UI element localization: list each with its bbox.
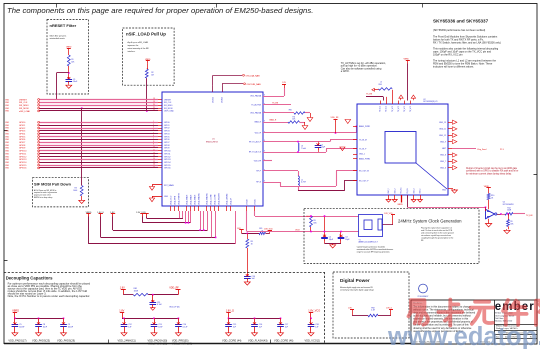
svg-text:VDD_SYNTH: VDD_SYNTH — [179, 193, 181, 205]
svg-text:VDD_PADS: VDD_PADS — [186, 194, 189, 205]
svg-text:TX_VCC: TX_VCC — [392, 105, 394, 112]
svg-text:22: 22 — [153, 110, 155, 112]
svg-text:SKY65336(11)-21: SKY65336(11)-21 — [423, 101, 437, 103]
svg-text:GPIO14: GPIO14 — [19, 162, 27, 164]
svg-text:1.8V_D: 1.8V_D — [226, 309, 235, 312]
svg-text:17: 17 — [153, 167, 155, 169]
svg-text:EM5: EM5 — [6, 148, 9, 150]
svg-text:GPIO4: GPIO4 — [164, 133, 170, 135]
svg-text:GPIO8: GPIO8 — [164, 145, 170, 147]
svg-text:TX_IN_P: TX_IN_P — [359, 149, 367, 151]
svg-text:FB5: FB5 — [259, 228, 262, 230]
svg-text:BIAS_R: BIAS_R — [270, 118, 277, 121]
svg-text:GPIO3: GPIO3 — [164, 131, 170, 133]
svg-text:TX_ACTIVE: TX_ACTIVE — [251, 104, 262, 107]
svg-text:GPIO5: GPIO5 — [164, 136, 170, 138]
svg-text:VDD_RF: VDD_RF — [331, 117, 340, 119]
svg-text:VDD_CORE (44): VDD_CORE (44) — [222, 338, 242, 342]
svg-text:VDD_CORE (46): VDD_CORE (46) — [274, 338, 294, 342]
svg-text:VDD_PADS: VDD_PADS — [194, 194, 197, 205]
svg-text:RX_OUT_M: RX_OUT_M — [359, 171, 369, 173]
svg-text:EM5: EM5 — [6, 108, 9, 110]
svg-text:VDD_PADSA: VDD_PADSA — [250, 112, 262, 115]
svg-text:EM5: EM5 — [6, 159, 9, 161]
svg-text:GPIO1: GPIO1 — [19, 125, 26, 127]
svg-text:GND_11: GND_11 — [439, 129, 446, 131]
svg-text:100R: 100R — [507, 210, 512, 212]
svg-text:EM5: EM5 — [6, 128, 9, 130]
svg-text:VDD_IF: VDD_IF — [255, 133, 262, 135]
svg-text:a GPIO.: a GPIO. — [341, 70, 350, 73]
svg-text:VDD_PADSA(32): VDD_PADSA(32) — [148, 342, 168, 346]
svg-text:18: 18 — [153, 98, 155, 100]
svg-text:RF_TX_ALT_P: RF_TX_ALT_P — [249, 140, 262, 143]
svg-text:GPIO15: GPIO15 — [164, 165, 171, 167]
svg-text:www.edatop.co: www.edatop.co — [387, 323, 540, 349]
svg-text:GPIO13: GPIO13 — [164, 159, 171, 161]
svg-text:100nF: 100nF — [19, 326, 25, 328]
svg-text:GPIO9: GPIO9 — [164, 148, 170, 150]
svg-text:TX_EN: TX_EN — [272, 103, 279, 105]
svg-text:100nF: 100nF — [68, 326, 74, 328]
svg-text:VDD_FLASH: VDD_FLASH — [218, 193, 221, 205]
svg-text:4.7nH: 4.7nH — [301, 182, 306, 184]
svg-text:OSCA: OSCA — [254, 199, 257, 205]
svg-text:GPIO4: GPIO4 — [19, 133, 26, 135]
svg-text:range for accurate RF frequenc: range for accurate RF frequency generati… — [357, 250, 391, 253]
svg-text:SIF_MISO: SIF_MISO — [19, 105, 29, 107]
svg-text:P1.9: P1.9 — [500, 149, 504, 151]
svg-text:EM5: EM5 — [6, 145, 9, 147]
svg-text:EM5: EM5 — [6, 105, 9, 107]
svg-text:GND_4: GND_4 — [413, 188, 415, 193]
svg-text:interface.: interface. — [128, 50, 136, 53]
svg-text:GPIO8: GPIO8 — [19, 145, 26, 147]
svg-text:VDD_PADSA: VDD_PADSA — [250, 95, 262, 98]
svg-text:nRESET Filter: nRESET Filter — [50, 23, 77, 28]
svg-text:VDD_RF: VDD_RF — [254, 161, 262, 163]
svg-text:EM5: EM5 — [6, 131, 9, 133]
svg-text:GND_1: GND_1 — [359, 154, 365, 156]
svg-text:RX_VCC: RX_VCC — [401, 186, 403, 193]
svg-text:VBRD: VBRD — [145, 59, 151, 61]
svg-text:VBRD: VBRD — [404, 59, 410, 61]
svg-text:TX_VCC: TX_VCC — [404, 105, 406, 112]
svg-text:RST_WAKE: RST_WAKE — [164, 184, 175, 187]
svg-text:VBRD: VBRD — [12, 309, 19, 312]
svg-text:TX_VCC: TX_VCC — [410, 105, 412, 112]
svg-text:Note, the IC Pin Number is in: Note, the IC Pin Number is in parens und… — [8, 294, 91, 298]
svg-text:GPIO7: GPIO7 — [164, 142, 170, 144]
svg-text:5th Floor: 5th Floor — [495, 317, 504, 320]
svg-text:ABM8G-24.000MHZ-4Y-T: ABM8G-24.000MHZ-4Y-T — [359, 241, 378, 244]
svg-text:TX_VCC: TX_VCC — [386, 105, 388, 112]
svg-text:EM5: EM5 — [6, 153, 9, 155]
svg-text:GPIO5: GPIO5 — [19, 136, 26, 138]
svg-text:Output of inverter circuit can: Output of inverter circuit can be tie to… — [466, 167, 518, 170]
svg-text:GPIO0: GPIO0 — [164, 122, 170, 124]
svg-text:100pF on the RX_VCC pin: 100pF on the RX_VCC pin — [433, 54, 463, 57]
svg-text:GND_2: GND_2 — [388, 188, 390, 193]
svg-text:VDD_SYNTH(36): VDD_SYNTH(36) — [172, 342, 192, 346]
svg-text:RF_N: RF_N — [256, 182, 261, 184]
svg-text:Chip_Feed: Chip_Feed — [477, 149, 486, 151]
svg-text:VDD_IF (8): VDD_IF (8) — [169, 306, 179, 308]
svg-text:GND_8: GND_8 — [440, 155, 446, 157]
svg-text:nRESET: nRESET — [19, 99, 28, 101]
svg-text:OSCB24: OSCB24 — [213, 97, 215, 103]
svg-text:GND_5: GND_5 — [420, 188, 422, 193]
svg-text:GPIO2: GPIO2 — [19, 128, 26, 130]
svg-text:VDD_PADS(25): VDD_PADS(25) — [32, 338, 50, 342]
svg-text:A pull up on nSIF_LOAD: A pull up on nSIF_LOAD — [128, 41, 149, 44]
svg-text:24MHz System Clock Generation: 24MHz System Clock Generation — [398, 219, 462, 224]
svg-text:GND_6: GND_6 — [440, 167, 446, 169]
svg-text:EM5: EM5 — [6, 142, 9, 144]
svg-text:TX_IN_M: TX_IN_M — [359, 139, 367, 141]
svg-text:VDD_PADSA: VDD_PADSA — [206, 193, 209, 205]
svg-text:OSC24B_NAB: OSC24B_NAB — [247, 83, 262, 86]
svg-text:1.8V_VCD: 1.8V_VCD — [384, 213, 393, 215]
svg-text:SIF_CLK: SIF_CLK — [19, 102, 28, 104]
svg-text:GPIO12: GPIO12 — [19, 156, 27, 158]
svg-text:TX_EN: TX_EN — [366, 94, 373, 96]
svg-text:SIF MOSI Pull Down: SIF MOSI Pull Down — [34, 181, 72, 186]
svg-text:VDD_24MHZ: VDD_24MHZ — [227, 193, 229, 205]
svg-text:GPIO10: GPIO10 — [19, 151, 27, 153]
svg-text:GPIO6: GPIO6 — [19, 139, 26, 141]
svg-text:VDD_CORE: VDD_CORE — [211, 194, 213, 205]
svg-text:nRESET: nRESET — [164, 99, 172, 101]
svg-text:VDD_VCO: VDD_VCO — [171, 195, 173, 205]
svg-text:EM5: EM5 — [6, 122, 9, 124]
svg-text:for minimum current draw durin: for minimum current draw during sleep de… — [466, 172, 512, 175]
svg-text:EM5: EM5 — [6, 99, 9, 101]
svg-text:FB4: FB4 — [379, 84, 382, 86]
svg-text:VDD_VCO(2): VDD_VCO(2) — [305, 338, 321, 342]
svg-text:VDD_PADSA: VDD_PADSA — [198, 193, 201, 205]
svg-text:VDD_FLASH(43): VDD_FLASH(43) — [248, 338, 268, 342]
svg-text:nSIF_LOAD Pull Up: nSIF_LOAD Pull Up — [126, 31, 166, 36]
svg-text:GPIO11: GPIO11 — [164, 153, 170, 155]
svg-text:GPIO11: GPIO11 — [19, 153, 27, 155]
svg-text:coupling through the ground pl: coupling through the ground plane to the — [421, 237, 453, 240]
svg-text:13: 13 — [153, 155, 155, 157]
svg-text:SIF_MISO: SIF_MISO — [164, 105, 173, 107]
svg-text:GND_12: GND_12 — [439, 135, 446, 137]
svg-text:OSCB: OSCB — [295, 229, 300, 231]
svg-text:GND: GND — [442, 190, 447, 192]
svg-text:EM5: EM5 — [6, 156, 9, 158]
svg-text:VDD_CORE: VDD_CORE — [215, 194, 217, 205]
svg-text:RF_TX_ALT_N: RF_TX_ALT_N — [249, 151, 262, 154]
svg-text:16: 16 — [153, 164, 155, 166]
svg-text:nSIF_LOAD: nSIF_LOAD — [19, 110, 31, 113]
svg-text:EM5: EM5 — [6, 102, 9, 104]
svg-text:combined with a GPIO to disabl: combined with a GPIO to disable RX path … — [466, 170, 519, 173]
svg-text:VDD_IF: VDD_IF — [231, 197, 233, 205]
svg-text:1.8V: 1.8V — [119, 309, 124, 312]
svg-text:unintended resets.: unintended resets. — [50, 37, 66, 40]
svg-text:EM5: EM5 — [6, 139, 9, 141]
svg-text:RX_EN: RX_EN — [407, 188, 409, 193]
svg-text:EM5: EM5 — [6, 136, 9, 138]
svg-text:VDD_24MHZ(1): VDD_24MHZ(1) — [118, 338, 136, 342]
svg-text:GPIO16: GPIO16 — [164, 168, 171, 170]
svg-text:GND_7: GND_7 — [440, 161, 446, 163]
svg-text:nSIF_LOAD: nSIF_LOAD — [164, 110, 174, 113]
svg-text:VDD_PADS: VDD_PADS — [190, 194, 193, 205]
svg-text:GPIO9: GPIO9 — [19, 148, 26, 150]
svg-text:GPIO1: GPIO1 — [164, 125, 170, 127]
svg-text:1.8V_VCO: 1.8V_VCO — [308, 309, 320, 312]
svg-text:SIF_MOSI: SIF_MOSI — [164, 108, 173, 110]
svg-text:VDD_PADS(29): VDD_PADS(29) — [57, 338, 75, 342]
svg-text:BIAS_R: BIAS_R — [255, 121, 262, 124]
svg-text:noise immunity of the SIF: noise immunity of the SIF — [128, 47, 150, 50]
svg-text:19: 19 — [153, 101, 155, 103]
svg-text:EM5: EM5 — [6, 125, 9, 127]
svg-text:21: 21 — [153, 107, 155, 109]
svg-text:VDD_PADS(17): VDD_PADS(17) — [8, 338, 26, 342]
svg-text:BAND_PWR2: BAND_PWR2 — [359, 158, 370, 161]
svg-text:VDD_PRE: VDD_PRE — [175, 195, 177, 205]
svg-text:GND_13: GND_13 — [439, 122, 446, 124]
svg-text:EM250-RF-B: EM250-RF-B — [206, 142, 218, 144]
svg-text:SIF_MOSI: SIF_MOSI — [19, 108, 29, 110]
svg-text:inductors will tune to differe: inductors will tune to different values. — [433, 66, 474, 69]
svg-text:NC7SZ04M5X: NC7SZ04M5X — [503, 204, 515, 206]
svg-text:GND_3: GND_3 — [394, 188, 396, 193]
svg-text:EM5: EM5 — [6, 111, 9, 113]
svg-text:20: 20 — [153, 104, 155, 106]
svg-text:GPIO2: GPIO2 — [164, 128, 170, 130]
svg-text:15: 15 — [153, 161, 155, 163]
svg-text:EM5: EM5 — [6, 168, 9, 170]
svg-text:EM5: EM5 — [6, 165, 9, 167]
svg-text:EM5: EM5 — [6, 162, 9, 164]
svg-text:OSC24A_NAB: OSC24A_NAB — [246, 74, 261, 77]
svg-text:10: 10 — [153, 147, 155, 149]
svg-text:EM250 is in deep sleep.: EM250 is in deep sleep. — [34, 197, 53, 199]
svg-text:12: 12 — [153, 152, 155, 154]
svg-text:GPIO15: GPIO15 — [19, 165, 27, 167]
svg-text:GPIO12: GPIO12 — [164, 156, 171, 158]
svg-text:NBR5: NBR5 — [398, 204, 403, 206]
svg-text:Digital Power: Digital Power — [340, 278, 370, 283]
svg-text:SKY65336 and SKY65337: SKY65336 and SKY65337 — [433, 19, 489, 24]
svg-text:BAND_PWR1: BAND_PWR1 — [359, 125, 370, 128]
svg-text:GPIO16: GPIO16 — [19, 168, 27, 170]
svg-text:(SKY65336 performance has not: (SKY65336 performance has not been verif… — [433, 29, 485, 32]
svg-text:GPIO6: GPIO6 — [164, 139, 170, 141]
svg-text:SIF_CLK: SIF_CLK — [164, 102, 172, 104]
svg-text:OSCB: OSCB — [247, 199, 249, 205]
svg-text:GPIO7: GPIO7 — [19, 142, 26, 144]
svg-text:VBRD: VBRD — [66, 47, 72, 49]
svg-text:Decoupling Capacitors: Decoupling Capacitors — [6, 276, 53, 281]
svg-text:GPIO0: GPIO0 — [19, 122, 26, 124]
svg-text:RF_P: RF_P — [256, 171, 261, 173]
svg-text:GND_9: GND_9 — [440, 141, 446, 143]
svg-text:improves the: improves the — [128, 44, 139, 47]
svg-text:The components on this page ar: The components on this page are required… — [7, 6, 313, 15]
svg-text:GPIO14: GPIO14 — [164, 162, 171, 164]
svg-text:11: 11 — [153, 149, 155, 151]
svg-text:TX_VCC: TX_VCC — [380, 105, 382, 112]
svg-text:EM5: EM5 — [6, 151, 9, 153]
svg-text:RX / TX Switch, harmonic filte: RX / TX Switch, harmonic filter, and an … — [433, 42, 501, 45]
svg-text:TX_VCC: TX_VCC — [398, 105, 400, 112]
svg-text:EM5: EM5 — [6, 133, 9, 135]
svg-text:RX_OUT_P: RX_OUT_P — [359, 181, 369, 183]
svg-text:100R: 100R — [134, 291, 139, 293]
svg-text:GPIO13: GPIO13 — [19, 159, 27, 161]
svg-text:TX_EN: TX_EN — [526, 215, 533, 217]
svg-text:0.1uF: 0.1uF — [157, 304, 163, 306]
svg-text:FB6: FB6 — [289, 109, 292, 111]
svg-text:GPIO10: GPIO10 — [164, 151, 171, 153]
svg-text:0.1uF: 0.1uF — [183, 326, 189, 328]
svg-text:7.5nH: 7.5nH — [301, 148, 306, 150]
svg-text:14: 14 — [153, 158, 155, 160]
svg-text:GND: GND — [164, 196, 169, 198]
svg-text:GPIO3: GPIO3 — [19, 131, 26, 133]
svg-text:1.8V_D: 1.8V_D — [386, 308, 393, 310]
